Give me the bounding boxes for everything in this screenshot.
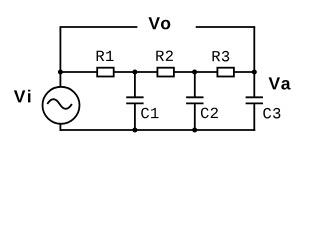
wire middle rail: source node to R1 (60, 71, 98, 73)
resistor R1 (97, 68, 114, 77)
label R1 value (97, 51, 114, 61)
label C1 value (141, 108, 158, 119)
capacitor C3 (246, 97, 263, 131)
label Vi (input source) (14, 90, 31, 103)
voltage source Vi (AC sine source) (43, 87, 80, 124)
label C2 value (201, 108, 218, 119)
wire bottom rail (ground return) (60, 129, 256, 131)
wire left vertical from source to bottom rail (59, 124, 61, 131)
capacitor C2 (186, 72, 203, 130)
capacitor C1 (126, 72, 143, 130)
junction node C1 at bottom rail (132, 128, 137, 133)
wire top rail right segment (node Vo) (196, 26, 256, 28)
wire middle rail: R1 to R2 (114, 71, 157, 73)
resistor R2 (157, 68, 174, 77)
junction node C2 at bottom rail (192, 128, 197, 133)
junction node at source output / middle rail (58, 70, 63, 75)
label C3 value (263, 108, 280, 119)
wire right vertical from top rail to C3 (253, 27, 255, 97)
junction node between R1 and R2 (top of C1) (132, 70, 137, 75)
label R2 value (156, 51, 173, 61)
resistor R3 (217, 68, 234, 77)
junction node Va (top of C3) (252, 70, 257, 75)
wire middle rail: R3 to node Va (234, 71, 254, 73)
label Vo (output node) (149, 17, 171, 29)
wire top rail left segment (node Vo) (60, 26, 138, 28)
label Va (node A) (269, 77, 291, 89)
wire middle rail: R2 to R3 (175, 71, 218, 73)
wire left vertical from top rail to source (59, 27, 61, 87)
junction node between R2 and R3 (top of C2) (192, 70, 197, 75)
label R3 value (213, 51, 230, 62)
